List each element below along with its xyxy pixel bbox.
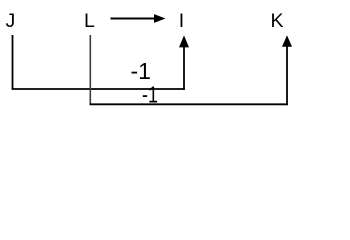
wire from L down — [89, 35, 91, 104]
arrow L to I — [111, 14, 166, 23]
svg-text:-1: -1 — [142, 82, 158, 108]
svg-text:J: J — [6, 10, 16, 32]
arrow up to K — [282, 35, 292, 105]
svg-text:I: I — [179, 10, 184, 32]
arrow up to I — [179, 35, 189, 90]
wire L horizontal — [90, 103, 288, 105]
wire from J down — [12, 35, 14, 89]
svg-text:K: K — [271, 10, 284, 32]
svg-text:L: L — [84, 10, 95, 32]
wire J horizontal — [12, 88, 185, 90]
svg-text:-1: -1 — [131, 58, 151, 84]
